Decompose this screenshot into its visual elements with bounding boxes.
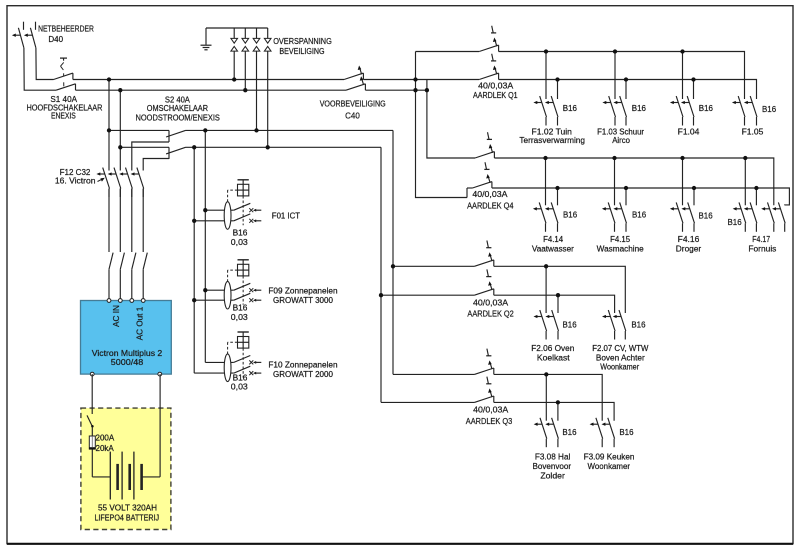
svg-text:F12 C32: F12 C32 [60, 168, 91, 177]
svg-text:B16: B16 [563, 320, 578, 329]
svg-text:16. Victron: 16. Victron [55, 177, 96, 186]
svg-text:B16: B16 [699, 212, 714, 221]
svg-text:Koelkast: Koelkast [537, 353, 571, 362]
svg-text:BEVEILIGING: BEVEILIGING [279, 47, 324, 56]
svg-text:200A: 200A [96, 434, 115, 443]
svg-text:Victron Multiplus 2: Victron Multiplus 2 [92, 349, 163, 358]
svg-text:F4.16: F4.16 [678, 235, 700, 244]
svg-text:GROWATT 2000: GROWATT 2000 [273, 370, 333, 379]
svg-text:B16: B16 [728, 218, 743, 227]
svg-text:Terrasverwarming: Terrasverwarming [519, 136, 585, 145]
svg-text:AC IN: AC IN [112, 305, 121, 327]
svg-text:AARDLEK Q2: AARDLEK Q2 [467, 310, 514, 319]
svg-text:F3.08 Hal: F3.08 Hal [535, 452, 571, 461]
svg-text:B16: B16 [632, 210, 647, 219]
svg-text:Airco: Airco [612, 136, 630, 145]
svg-text:Wasmachine: Wasmachine [597, 245, 645, 254]
svg-text:F1.04: F1.04 [678, 127, 700, 136]
svg-text:40/0,03A: 40/0,03A [473, 406, 509, 415]
svg-text:F10 Zonnepanelen: F10 Zonnepanelen [268, 361, 337, 370]
svg-text:S2 40A: S2 40A [165, 95, 191, 104]
svg-text:F4.15: F4.15 [610, 235, 631, 244]
svg-text:F1.05: F1.05 [742, 127, 764, 136]
svg-text:OMSCHAKELAAR: OMSCHAKELAAR [147, 104, 208, 113]
svg-text:B16: B16 [631, 320, 646, 329]
svg-text:Droger: Droger [676, 245, 702, 254]
svg-text:AC Out 1: AC Out 1 [136, 306, 145, 340]
svg-text:B16: B16 [562, 428, 577, 437]
svg-text:Bovenvoor: Bovenvoor [533, 462, 572, 471]
svg-text:GROWATT 3000: GROWATT 3000 [273, 296, 333, 305]
svg-text:NETBEHEERDER: NETBEHEERDER [38, 25, 94, 34]
svg-text:B16: B16 [233, 303, 248, 312]
svg-text:B16: B16 [619, 428, 634, 437]
svg-text:Boven Achter: Boven Achter [596, 353, 645, 362]
svg-text:20kA: 20kA [96, 444, 115, 453]
svg-text:B16: B16 [699, 104, 714, 113]
svg-text:F2.07 CV, WTW: F2.07 CV, WTW [592, 344, 649, 353]
svg-text:F2.06 Oven: F2.06 Oven [531, 344, 574, 353]
svg-text:ENEXIS: ENEXIS [51, 112, 76, 121]
svg-text:Zolder: Zolder [540, 472, 565, 481]
svg-text:F4.14: F4.14 [543, 235, 564, 244]
svg-text:C40: C40 [345, 112, 360, 121]
svg-text:OVERSPANNING: OVERSPANNING [273, 37, 332, 46]
svg-text:55 VOLT 320AH: 55 VOLT 320AH [98, 503, 157, 512]
svg-text:Woonkamer: Woonkamer [588, 462, 631, 471]
svg-text:0,03: 0,03 [231, 238, 249, 247]
svg-text:F1.02 Tuin: F1.02 Tuin [532, 127, 572, 136]
svg-text:5000/48: 5000/48 [111, 358, 144, 367]
svg-text:Vaatwasser: Vaatwasser [532, 245, 574, 254]
svg-text:VOORBEVEILIGING: VOORBEVEILIGING [320, 99, 386, 108]
svg-text:B16: B16 [233, 229, 248, 238]
svg-text:F01 ICT: F01 ICT [272, 211, 300, 220]
svg-text:AARDLEK Q1: AARDLEK Q1 [473, 91, 518, 100]
svg-text:AARDLEK Q4: AARDLEK Q4 [467, 201, 514, 210]
svg-text:LIFEPO4 BATTERIJ: LIFEPO4 BATTERIJ [94, 514, 159, 523]
svg-text:B16: B16 [762, 105, 777, 114]
svg-text:B16: B16 [233, 374, 248, 383]
svg-text:F1.03 Schuur: F1.03 Schuur [597, 127, 644, 136]
svg-text:B16: B16 [563, 104, 578, 113]
svg-text:Woonkamer: Woonkamer [600, 363, 639, 372]
svg-text:Fornuis: Fornuis [748, 245, 776, 254]
svg-text:0,03: 0,03 [231, 313, 249, 322]
svg-text:F09 Zonnepanelen: F09 Zonnepanelen [268, 286, 337, 295]
svg-text:NOODSTROOM/ENEXIS: NOODSTROOM/ENEXIS [136, 114, 220, 123]
svg-text:AARDLEK Q3: AARDLEK Q3 [466, 417, 513, 426]
svg-text:40/0,03A: 40/0,03A [472, 190, 508, 199]
svg-text:F4.17: F4.17 [752, 235, 770, 244]
svg-text:F3.09 Keuken: F3.09 Keuken [584, 452, 635, 461]
svg-text:40/0,03A: 40/0,03A [478, 81, 514, 90]
svg-text:0,03: 0,03 [231, 382, 249, 391]
svg-text:D40: D40 [48, 35, 63, 44]
svg-text:B16: B16 [632, 104, 647, 113]
svg-text:B16: B16 [563, 210, 578, 219]
svg-text:40/0,03A: 40/0,03A [473, 299, 509, 308]
